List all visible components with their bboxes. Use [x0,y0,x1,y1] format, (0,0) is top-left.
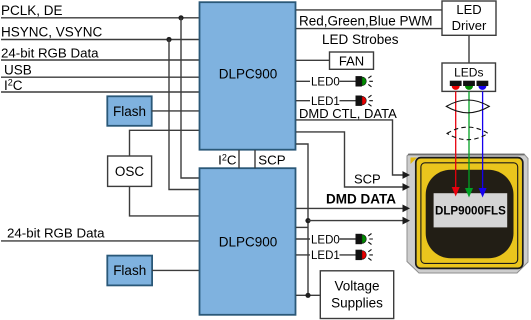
arrowhead red light [452,187,460,197]
node junction voltage [305,293,310,298]
label LED1 (top) [310,94,340,108]
wire Voltage Supplies connection [296,294,320,296]
node junction PCLK [178,15,183,20]
svg-text:Flash: Flash [113,104,146,119]
node junction HSYNC [166,37,171,42]
wire LED1 (top) [296,100,356,102]
svg-text:USB: USB [4,63,32,78]
led red source [450,81,462,90]
wire blue light path [482,91,484,189]
lens L2 dashed [447,127,488,140]
svg-text:HSYNC, VSYNC: HSYNC, VSYNC [1,25,103,40]
driver U5 LED Driver [442,1,496,35]
wire 24-bit RGB Data (top) [1,59,199,61]
svg-text:24-bit RGB Data: 24-bit RGB Data [7,225,105,240]
svg-text:Voltage: Voltage [334,279,379,294]
dmd ceramic yellow frame [416,158,523,269]
wire PCLK/DE [1,17,199,19]
svg-text:LED Strobes: LED Strobes [322,32,399,47]
wire DMD CTL, DATA to DMD [296,120,404,175]
arrowhead bus [403,217,411,225]
wire red light path [455,91,457,188]
svg-text:Driver: Driver [452,18,487,33]
dmd package top edge [408,154,525,156]
svg-text:LED1: LED1 [311,250,340,262]
svg-text:PCLK, DE: PCLK, DE [1,3,63,18]
led blue source [477,81,489,90]
arrowhead blue light [479,188,487,198]
wire USB [1,76,199,78]
wire bus stub upper DLPC900 [296,144,308,295]
led D3 green indicator (bottom) [356,234,373,245]
led D2 red indicator (top) [356,95,373,106]
svg-text:SCP: SCP [354,171,381,186]
dmd label plate U6 DLP9000FLS [434,193,508,227]
svg-text:LEDs: LEDs [454,66,483,80]
dmd aperture window [426,170,514,259]
fan FAN box [330,52,374,69]
svg-text:LED: LED [456,2,481,17]
svg-text:LED0: LED0 [311,234,340,246]
dmd pin1 marker [411,158,418,165]
svg-text:DLPC900: DLPC900 [219,66,278,81]
wire FAN connection [296,59,330,61]
net I2C link cell divider left [238,150,240,168]
svg-text:DLP9000FLS: DLP9000FLS [435,205,506,218]
wire PWM upper to LED Driver [296,9,442,11]
svg-text:24-bit RGB Data: 24-bit RGB Data [1,45,99,60]
wire HSYNC/VSYNC [1,39,199,41]
wire DMD DATA to DMD [296,207,404,209]
wire 24-bit RGB Data (bottom) [1,240,199,242]
wire OSC to upper DLPC900 [130,130,200,156]
arrowhead DMD DATA [403,205,411,213]
wire Flash1 to DLPC900 [152,110,199,112]
svg-text:DMD DATA: DMD DATA [326,192,396,207]
wire SCP to DMD [296,132,404,187]
controller U1 DLPC900 (top) [200,2,296,150]
wire PCLK/DE drop to lower DLPC900 [181,18,199,178]
wire stub lower DLPC900 top [296,226,308,228]
wire Flash2 to lower DLPC900 [152,269,199,271]
module LEDs box [442,63,496,91]
svg-text:Red,Green,Blue PWM: Red,Green,Blue PWM [299,13,433,28]
label LED1 (bottom) [310,249,340,263]
power Voltage Supplies box [320,271,393,319]
svg-text:I2C: I2C [4,78,23,93]
svg-text:Supplies: Supplies [331,296,383,311]
dmd package body [407,154,528,273]
lens L1 solid [446,100,489,113]
svg-text:OSC: OSC [115,164,145,179]
dmd inner outline [421,163,518,264]
flash U2 Flash (top) [107,96,151,126]
led D4 red indicator (bottom) [356,249,373,260]
svg-text:DMD CTL, DATA: DMD CTL, DATA [299,106,397,121]
svg-text:LED0: LED0 [311,77,340,89]
svg-text:I2C: I2C [218,152,237,167]
controller U3 DLPC900 (bottom) [200,168,296,315]
led D1 green indicator (top) [356,76,373,87]
label LED0 (bottom) [310,233,340,247]
arrowhead SCP [403,183,411,191]
net I2C link cell divider right [254,150,256,168]
arrowhead DMD CTL [403,171,411,179]
wire bus to DMD [308,220,404,222]
wire HSYNC drop to lower DLPC900 [169,40,199,190]
led green source [463,81,475,90]
wire Red,Green,Blue PWM to LED Driver [296,28,442,30]
svg-text:FAN: FAN [339,54,364,69]
wire LED0 (bottom) [296,238,356,240]
svg-text:SCP: SCP [258,153,285,168]
arrowhead green light [465,188,473,198]
wire LED Driver to LEDs [468,35,470,63]
svg-text:Flash: Flash [113,263,146,278]
node junction DMD bus [305,218,310,223]
wire OSC to lower DLPC900 [130,186,200,216]
label LED0 (top) [310,75,340,89]
wire I2C host [1,91,199,93]
flash U4 Flash (bottom) [107,256,152,286]
svg-text:DLPC900: DLPC900 [219,234,278,249]
oscillator OSC [108,156,152,186]
wire LED1 (bottom) [296,254,356,256]
wire LED0 (top) [296,80,356,82]
wire green light path [468,91,470,189]
